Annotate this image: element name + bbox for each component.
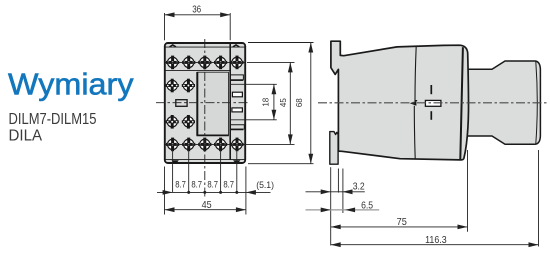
line below row 1	[164, 69, 230, 71]
center tick above	[430, 85, 432, 94]
dimension 3.2	[306, 181, 365, 195]
screw extension lines down	[172, 150, 174, 192]
front cylinder	[465, 61, 540, 144]
cylinder end cap inner arc	[536, 62, 538, 144]
ext claw right	[337, 169, 339, 193]
svg-text:8.7: 8.7	[223, 180, 234, 190]
screws row 3	[166, 115, 179, 129]
side view body	[331, 41, 469, 160]
inner cover plate	[198, 72, 229, 135]
aux ledge 1	[230, 75, 243, 80]
body edge extension lines down	[164, 167, 166, 215]
dimension 116.3	[331, 234, 539, 247]
lower mounting foot	[330, 132, 338, 165]
top strip line	[164, 46, 245, 48]
dimension 6.5	[306, 199, 380, 212]
vertical centerline front view	[204, 39, 206, 197]
dimension 36	[165, 4, 231, 41]
svg-text:116.3: 116.3	[425, 234, 447, 246]
center tick below	[430, 111, 432, 120]
ext foot inner	[342, 169, 344, 214]
screws row 2	[166, 79, 179, 93]
svg-text:3.2: 3.2	[353, 181, 365, 193]
svg-text:75: 75	[397, 216, 407, 228]
side view centerline	[318, 102, 548, 104]
dimension 18	[230, 84, 276, 120]
svg-text:8.7: 8.7	[207, 180, 218, 190]
bottom strip line	[164, 159, 245, 161]
parting line upper	[415, 46, 417, 100]
coil marker rect	[425, 100, 441, 106]
svg-text:DILA: DILA	[9, 128, 43, 145]
bottom tooth right	[233, 160, 240, 163]
svg-text:Wymiary: Wymiary	[8, 67, 134, 101]
dimension 75	[331, 216, 468, 229]
ext claw left	[330, 167, 332, 245]
aux marker rect B	[232, 108, 243, 112]
label rect	[176, 100, 187, 107]
front face inner thick line	[460, 47, 463, 159]
aux ledge 2	[230, 125, 244, 129]
svg-text:DILM7-DILM15: DILM7-DILM15	[9, 111, 97, 128]
screws row 1	[166, 56, 179, 70]
ext 116.3 right	[538, 150, 540, 247]
top clip chevron right	[233, 45, 240, 47]
svg-text:(5.1): (5.1)	[256, 180, 274, 190]
svg-text:8.7: 8.7	[191, 180, 202, 190]
plate thick left edge	[196, 72, 198, 136]
svg-text:68: 68	[295, 98, 304, 107]
ext 75 right	[467, 150, 469, 232]
aux column separator	[229, 43, 231, 160]
contactor body front view	[165, 43, 245, 163]
terminal row line 1	[165, 61, 246, 63]
svg-text:8.7: 8.7	[175, 180, 186, 190]
svg-text:45: 45	[202, 199, 212, 211]
terminal row line 4	[165, 143, 246, 145]
direction arrow on centerline	[410, 101, 417, 106]
dimension 68	[248, 43, 314, 164]
screws row 4	[166, 138, 179, 152]
dimension 45 (bottom)	[165, 199, 246, 212]
svg-text:45: 45	[279, 98, 288, 107]
parting line lower	[413, 106, 416, 159]
plate thick bottom edge	[197, 134, 229, 136]
top clip chevron left	[170, 45, 177, 47]
svg-text:36: 36	[192, 4, 201, 16]
horizontal centerline front view	[156, 102, 249, 104]
aux marker rect A	[232, 92, 242, 97]
svg-text:6.5: 6.5	[361, 199, 373, 211]
bottom tooth left	[172, 160, 179, 163]
svg-text:18: 18	[262, 97, 271, 106]
dimension row 8.7 / (5.1)	[157, 180, 274, 195]
dimension 45 (right side)	[244, 62, 295, 144]
